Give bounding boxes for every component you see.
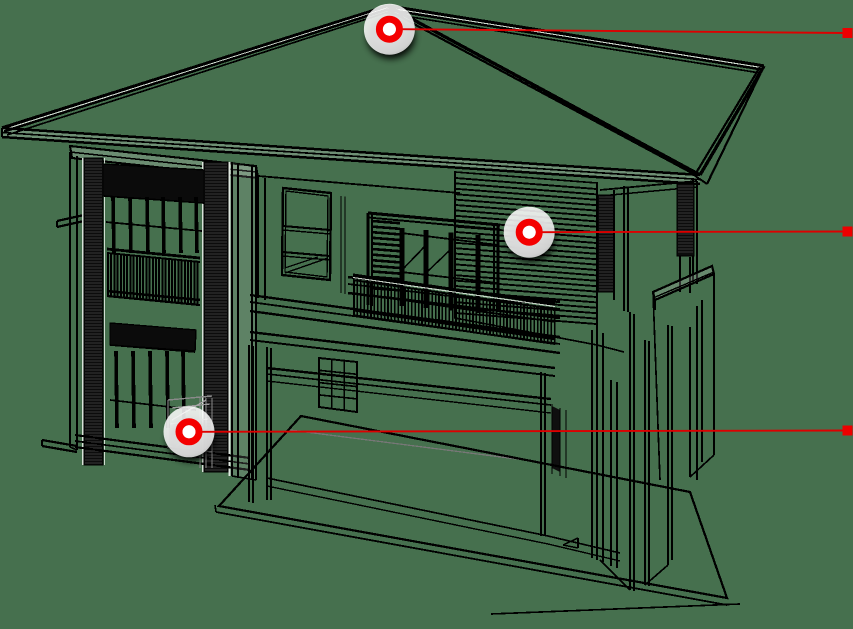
porch post <box>677 184 694 256</box>
lower slab band <box>250 295 560 353</box>
left wing roof slab <box>70 146 258 178</box>
front corner post <box>232 162 256 480</box>
marker 2 disc <box>504 207 555 258</box>
upper mullions <box>104 196 204 253</box>
front window <box>282 188 331 280</box>
marker 1 center <box>383 23 396 36</box>
marker 3 center <box>183 425 196 438</box>
upper balcony <box>368 213 500 313</box>
right wall corner <box>597 183 628 352</box>
mid header band <box>110 323 196 351</box>
driveway ramp <box>215 416 740 614</box>
annex slab <box>653 266 714 310</box>
left ledges <box>42 215 84 452</box>
garage opening <box>267 347 620 561</box>
marker 1 leader line <box>401 29 847 33</box>
pillar left <box>84 158 103 465</box>
marker 1 shadow <box>367 15 415 59</box>
marker 3 end square <box>843 426 853 436</box>
porch post tails <box>680 256 690 293</box>
right walls <box>563 273 714 591</box>
marker 2 center <box>523 226 536 239</box>
balcony slab <box>348 277 560 318</box>
main wall <box>258 176 460 300</box>
garage interior <box>168 396 212 468</box>
marker 1 ring <box>379 19 399 39</box>
marker 3 disc <box>164 406 215 457</box>
pillar highlights <box>83 158 230 476</box>
lower mullions <box>110 345 196 428</box>
garage header <box>250 332 555 376</box>
upper header band <box>103 164 204 203</box>
marker 2 ring <box>519 222 539 242</box>
marker 1 disc <box>364 4 415 55</box>
porch beam <box>600 178 697 284</box>
marker 3 ring <box>179 422 199 442</box>
marker 2 end square <box>843 227 853 237</box>
marker 3 leader line <box>201 431 848 432</box>
marker 2 leader line <box>541 231 847 234</box>
right louver strip <box>598 195 614 292</box>
marker 2 shadow <box>507 218 555 262</box>
garage left pillar <box>249 345 253 503</box>
left wing base <box>75 435 250 470</box>
pillar right <box>204 162 228 472</box>
marker 3 shadow <box>167 417 215 461</box>
marker 1 end square <box>843 28 853 38</box>
front railing <box>353 275 555 344</box>
left wing side wall <box>70 152 77 450</box>
paned window <box>319 358 357 412</box>
upper railing <box>107 249 200 305</box>
roof <box>2 6 764 184</box>
siding panel <box>455 172 597 345</box>
